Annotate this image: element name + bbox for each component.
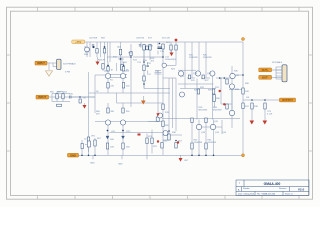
wire output stage vertical 3	[198, 42, 200, 155]
svg-text:220R/2W: 220R/2W	[208, 142, 217, 144]
resistor R23	[175, 45, 177, 50]
resistor R18	[143, 76, 145, 81]
input series diode b	[62, 94, 64, 99]
resistor R11b	[107, 67, 109, 72]
resistor R31	[191, 118, 193, 123]
diode D06	[106, 136, 109, 138]
wire out stage mid link	[162, 118, 240, 120]
wire out stage h70	[178, 69, 196, 71]
wire col 110	[109, 42, 111, 62]
wire positive rail	[85, 41, 243, 43]
transistor Q09	[158, 113, 163, 118]
resistor R08	[96, 49, 98, 54]
diode LED D02	[175, 39, 178, 42]
wire center bus	[130, 44, 132, 107]
capacitor C08	[106, 143, 108, 149]
transistor QH	[210, 124, 215, 129]
svg-text:C05 R08: C05 R08	[89, 38, 98, 40]
wire output stage vertical 2	[191, 42, 193, 155]
wire input cap link	[70, 96, 95, 98]
wire upper mid h	[107, 56, 131, 58]
svg-text:D01 24V: D01 24V	[162, 38, 171, 40]
wire q vert 221	[220, 78, 222, 104]
svg-text:GND: GND	[70, 153, 76, 157]
resistor R30	[168, 134, 170, 140]
wire stem gnd L01	[251, 109, 253, 121]
wire output stage vertical 4	[205, 42, 207, 155]
resistor Rx	[122, 143, 124, 149]
resistor R07	[94, 140, 96, 146]
junction q2	[118, 58, 124, 60]
wire vsupply label stub	[84, 41, 87, 43]
svg-text:0R22/5W: 0R22/5W	[213, 110, 222, 112]
wire V+ feed from label	[84, 41, 87, 43]
svg-text:C09 R16: C09 R16	[136, 38, 145, 40]
power label +V	[72, 40, 85, 44]
wire out stage h84	[178, 83, 214, 85]
net label texts	[37, 40, 293, 157]
resistor R42	[175, 143, 177, 149]
wire right output bus vertical	[242, 42, 244, 155]
wire xlr in pin2	[53, 63, 57, 67]
net label OUT	[280, 98, 296, 102]
wire driver col	[226, 81, 228, 83]
resistor R29	[212, 89, 214, 94]
resistor R bias2	[156, 117, 159, 121]
input XLR connector	[46, 59, 62, 76]
trimmer VR1	[87, 141, 90, 147]
ground red q1	[96, 62, 100, 66]
svg-text:Revision: Revision	[279, 188, 286, 190]
red dot c	[157, 140, 159, 142]
wire q5 q6 drops	[141, 42, 158, 55]
wire col 103	[103, 42, 105, 71]
tiny component text labels	[50, 38, 283, 166]
wire col 97	[96, 42, 98, 57]
capacitor C10	[157, 47, 161, 49]
diode D05	[122, 136, 125, 138]
svg-text:GMAA-400: GMAA-400	[264, 182, 281, 186]
transistor QD	[230, 73, 235, 78]
wire xlr in gnd	[48, 63, 50, 70]
svg-text:220R/2W: 220R/2W	[203, 57, 212, 59]
svg-text:OUTPUT: OUTPUT	[282, 98, 293, 102]
wire xlr in stub1	[47, 62, 57, 64]
wire diff pair top link	[106, 71, 128, 83]
svg-text:File: GMAA-400.ddb: File: GMAA-400.ddb	[257, 192, 276, 195]
resistor R14	[122, 83, 124, 89]
svg-text:XLR FEMALE: XLR FEMALE	[63, 63, 76, 66]
sheet inner border	[11, 11, 309, 195]
resistor R10	[102, 64, 104, 70]
diode D02	[119, 49, 121, 55]
svg-text:0R22/5W: 0R22/5W	[199, 110, 208, 112]
ground hollow input	[46, 71, 53, 76]
wire r23 col	[175, 42, 177, 61]
wire q1 drop	[87, 42, 90, 57]
capacitor C14	[170, 45, 172, 50]
wire c17 column	[155, 71, 161, 116]
wire base left lower	[108, 103, 163, 108]
svg-text:INPUT: INPUT	[37, 61, 45, 65]
output XLR connector	[276, 65, 287, 82]
transistor Q10	[162, 63, 166, 67]
wire vas link1	[144, 88, 170, 90]
svg-text:10R: 10R	[245, 91, 249, 93]
wire input node vertical	[94, 75, 96, 113]
wire feedback vertical	[88, 72, 90, 152]
node dot top right	[242, 38, 245, 41]
resistor R41	[161, 143, 163, 149]
wire stem gnd q1	[97, 57, 99, 62]
resistor R25	[188, 75, 190, 79]
transistor QB	[195, 71, 200, 76]
resistor R16	[143, 45, 145, 51]
ground red zener	[170, 53, 174, 57]
resistor R mirror1	[107, 108, 109, 113]
ground red L01	[250, 121, 255, 125]
resistor R16b	[146, 46, 148, 50]
resistor R34	[205, 143, 207, 149]
svg-text:OUT+: OUT+	[262, 68, 269, 72]
red ground symbols	[83, 39, 268, 162]
wire bias box col	[213, 90, 215, 108]
transistor QC	[210, 71, 215, 76]
red dot a	[219, 90, 221, 92]
resistor R36	[242, 88, 244, 94]
ground orange vas	[141, 101, 146, 105]
ground red bias	[156, 113, 159, 116]
svg-text:47K: 47K	[96, 114, 100, 116]
transistor QA	[178, 71, 183, 76]
wire input loop bottom	[52, 101, 70, 103]
resistor R12b	[122, 67, 124, 72]
wire stem gnd zener	[171, 50, 173, 53]
transistor Q07	[105, 120, 110, 125]
title block	[236, 180, 309, 195]
connector J1	[57, 59, 61, 69]
wire emitters join upper	[108, 88, 123, 93]
resistor R17	[149, 45, 151, 51]
svg-text:Number: Number	[243, 187, 250, 190]
node dot bottom right	[242, 154, 245, 157]
wire q10 link	[166, 61, 176, 65]
wire driver links	[221, 78, 232, 104]
svg-text:XLR MALE: XLR MALE	[272, 61, 283, 64]
net label INPUT	[35, 61, 47, 65]
svg-text:3 PIN: 3 PIN	[65, 72, 71, 74]
wire lower link2	[88, 92, 90, 94]
wire lower link1	[110, 132, 166, 134]
resistor R20	[162, 121, 164, 127]
wire fb comps tops	[82, 138, 95, 144]
svg-text:Sheet of: Sheet of	[285, 192, 293, 195]
wire bus a	[168, 78, 170, 125]
transistor Q11	[163, 131, 168, 136]
wire out row2 emitters	[187, 78, 222, 130]
wire right stage link	[180, 89, 243, 90]
svg-text:Date: 5-May-2004: Date: 5-May-2004	[238, 192, 255, 195]
wire mid column	[143, 44, 145, 89]
connector J2	[282, 65, 287, 82]
capacitor C05	[92, 45, 94, 46]
svg-text:OUT: OUT	[184, 160, 189, 162]
wire pre rail link	[133, 56, 163, 58]
orange net labels	[35, 38, 296, 158]
resistor R11	[121, 65, 123, 71]
wire q16 col	[231, 89, 233, 128]
transistor QE	[229, 84, 234, 89]
ground red C23	[263, 121, 268, 125]
red dot d	[177, 141, 179, 143]
svg-text:V2.0: V2.0	[298, 188, 305, 192]
zener D01	[162, 44, 164, 49]
transistor QG	[196, 124, 201, 129]
resistor R13	[107, 83, 109, 89]
wire vas link2	[89, 92, 171, 94]
transistor QF	[229, 110, 234, 115]
resistor R12	[87, 137, 89, 143]
wire lower drivers link	[202, 120, 222, 134]
wire mid column2	[149, 44, 151, 60]
wire bottom negative rail	[79, 154, 244, 156]
wire VAS vertical	[162, 44, 164, 155]
resistor R21	[146, 138, 148, 144]
wire stem gnd C23	[264, 109, 266, 121]
resistor R28	[197, 89, 199, 94]
wire to XLR upper	[232, 74, 243, 76]
transistor Q08	[120, 120, 125, 125]
resistor R27	[202, 75, 204, 79]
ground red bottom out	[179, 158, 183, 162]
wire output stage vertical 5	[197, 76, 214, 155]
wire input filter stubs	[57, 92, 63, 102]
svg-text:GND: GND	[118, 164, 123, 166]
inductor L01	[251, 103, 253, 109]
capacitor C07	[81, 144, 83, 149]
svg-text:GND: GND	[90, 163, 95, 165]
capacitor C06	[70, 96, 72, 99]
wire col 143 pair	[144, 50, 148, 89]
svg-text:R08 2K: R08 2K	[98, 60, 105, 62]
capacitor C09	[139, 45, 141, 46]
net label SPK-	[259, 75, 272, 79]
svg-text:220R/2W: 220R/2W	[194, 142, 203, 144]
resistor R19	[162, 104, 164, 110]
wire trimmer arrow	[85, 144, 87, 146]
capacitor C07b	[79, 99, 81, 103]
wire xlr out pins	[276, 67, 282, 79]
transistor Q03	[105, 73, 110, 78]
wire emitters join lower	[108, 125, 123, 155]
wire q11 area	[148, 116, 169, 140]
wire diff tail	[108, 62, 124, 66]
wire speaker label stubs	[272, 70, 282, 78]
resistor R13b	[130, 52, 132, 56]
red dot b	[223, 103, 225, 105]
svg-text:INPUT: INPUT	[38, 95, 46, 99]
resistor R bias	[213, 95, 215, 102]
border zone ticks	[7, 7, 313, 199]
wire bus c	[175, 78, 177, 131]
resistors / boxes components (outline)	[56, 44, 266, 149]
wire output stage vertical 1	[184, 42, 186, 89]
svg-text:0.1uF: 0.1uF	[267, 114, 273, 116]
resistor R33	[205, 118, 207, 123]
resistor R37	[242, 103, 244, 109]
wire q2 drop	[101, 42, 121, 71]
wire base left upper	[95, 74, 105, 76]
wire stem bottom out	[180, 155, 182, 158]
wire out bottom h	[162, 134, 182, 136]
wire r21 tops	[147, 130, 152, 139]
resistor R35	[226, 79, 228, 84]
main wires	[47, 42, 282, 155]
wire bus top link	[163, 77, 176, 79]
wire input loop left	[51, 94, 53, 102]
wire mid 116	[116, 63, 118, 71]
sheet outer border	[7, 7, 313, 199]
wire stem gnd input	[84, 103, 86, 105]
wire input signal horizontal	[49, 96, 96, 98]
net label FB	[68, 153, 79, 157]
wire stem gnd vas	[142, 96, 144, 101]
resistor bottom loop	[57, 104, 62, 106]
input series diode a	[56, 94, 58, 99]
capacitor C23	[264, 103, 266, 109]
resistor R09	[103, 49, 105, 54]
net label IN2	[36, 95, 49, 99]
wire tail down	[116, 93, 118, 103]
resistor R22	[151, 138, 153, 144]
stems to grounds	[85, 50, 266, 159]
wire input loop top	[52, 93, 70, 95]
transistor Q01	[85, 47, 90, 52]
wire zener col	[162, 44, 164, 57]
wire fb bottom left	[79, 146, 96, 155]
wire gnd row below rail	[93, 155, 147, 159]
resistor R15	[143, 65, 145, 71]
transistor Q04	[120, 73, 125, 78]
resistor Rq	[226, 104, 228, 109]
net label SPK+	[259, 68, 272, 72]
resistor R mirror2	[122, 108, 124, 113]
wire q vert 232	[231, 66, 233, 113]
ground red input	[83, 105, 87, 109]
svg-text:+75V: +75V	[75, 40, 81, 44]
wire mirror link	[95, 121, 163, 123]
svg-text:1000uF/50V: 1000uF/50V	[165, 59, 177, 61]
red mark mid	[138, 134, 141, 136]
wire col 121 drop	[121, 57, 123, 71]
wire c17 caps	[155, 73, 162, 75]
svg-text:220R/2W: 220R/2W	[189, 57, 198, 59]
wire bottom mid links	[147, 144, 152, 156]
resistor R32	[191, 143, 193, 149]
wire output node horizontal	[243, 99, 280, 101]
wire bus b	[172, 78, 174, 128]
capacitor C11	[147, 66, 149, 67]
svg-text:OUT-: OUT-	[262, 75, 268, 79]
transistor QI	[180, 92, 185, 97]
wire cap c14 col	[170, 42, 172, 53]
